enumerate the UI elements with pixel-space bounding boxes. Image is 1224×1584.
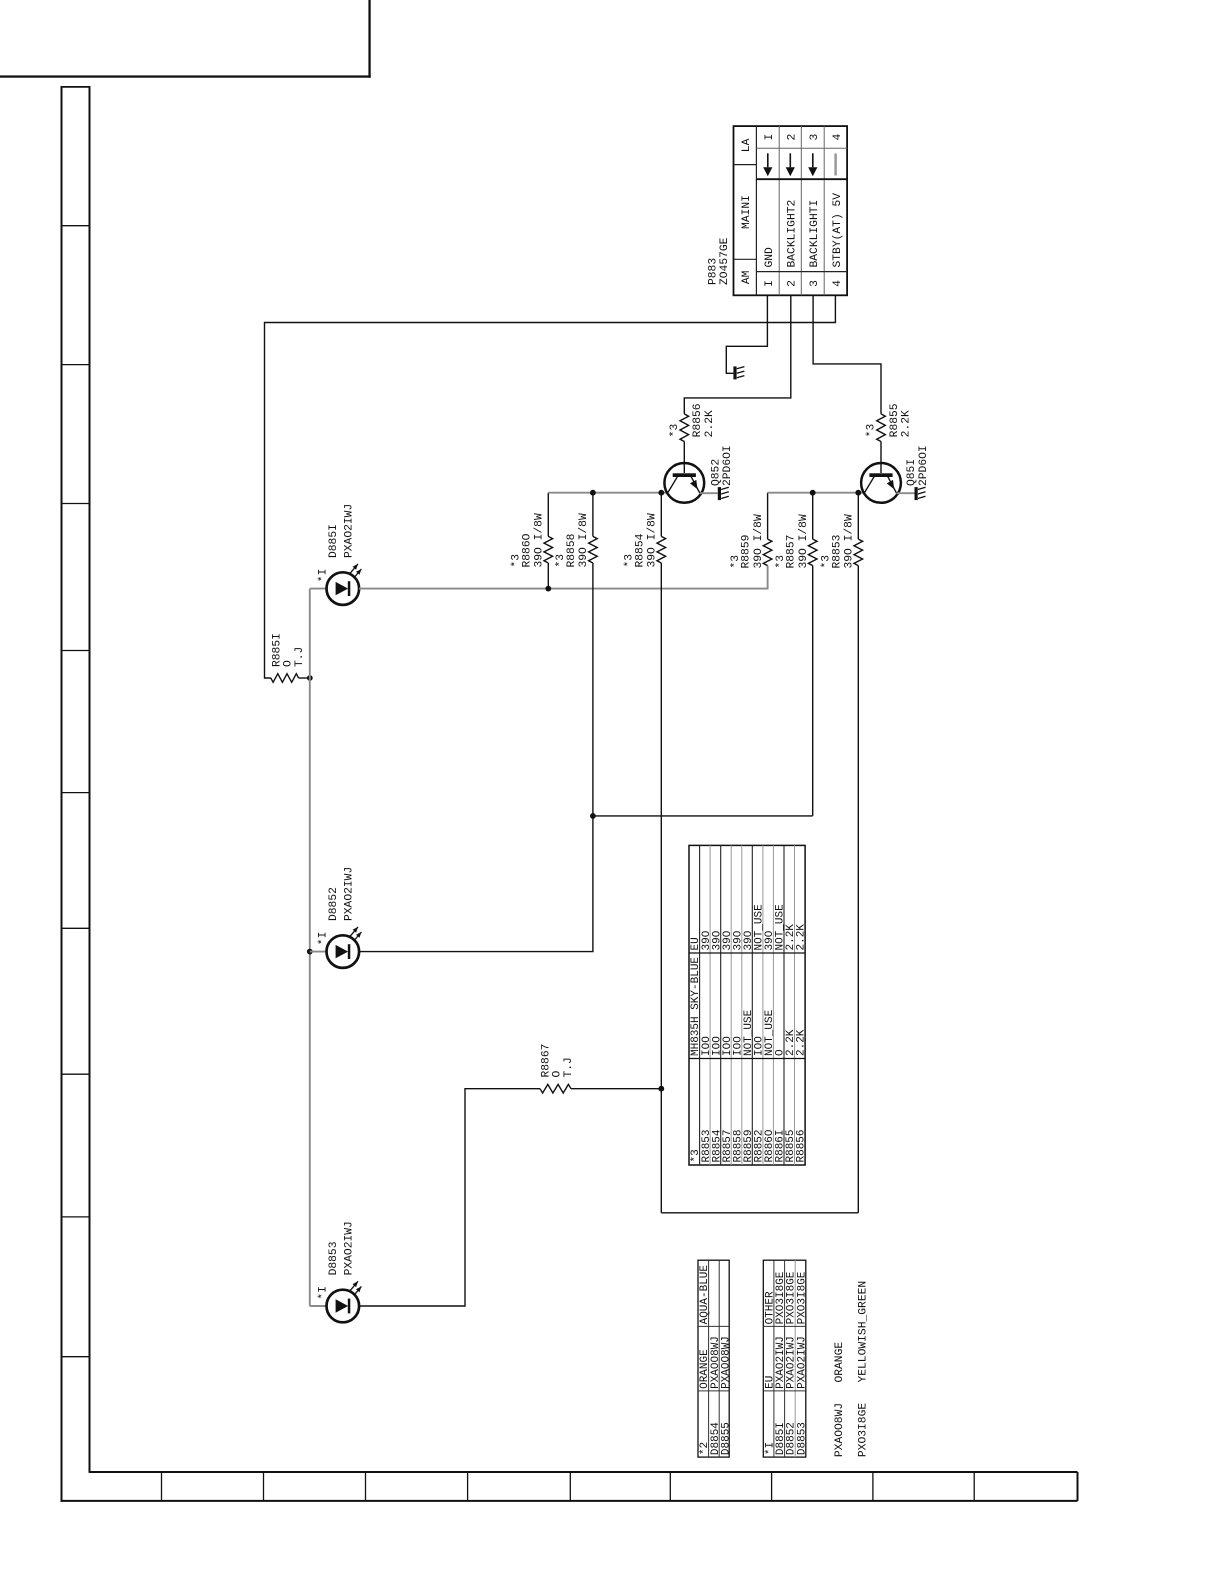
junction R8851 / LED bus — [307, 675, 313, 681]
svg-text:R8857: R8857 — [786, 535, 798, 569]
svg-text:*I: *I — [317, 569, 329, 583]
svg-text:PXAO2IWJ: PXAO2IWJ — [344, 504, 356, 558]
svg-text:Q852: Q852 — [710, 459, 722, 486]
wire collector node Q852 — [548, 492, 667, 494]
junction collector Q852 / R8858 — [590, 490, 596, 496]
svg-text:*I: *I — [317, 1286, 329, 1300]
svg-text:D8853: D8853 — [328, 1241, 340, 1275]
svg-text:R8859: R8859 — [741, 535, 753, 569]
svg-text:39O I/8W: 39O I/8W — [534, 513, 546, 567]
note PXA008WJ ORANGE — [834, 1342, 846, 1457]
resistor R8851 — [271, 674, 310, 683]
resistor R8855 2.2K — [877, 414, 886, 442]
svg-text:39O I/8W: 39O I/8W — [578, 513, 590, 567]
resistor R8854 390 1/8W — [657, 493, 666, 1213]
svg-text:MAINI: MAINI — [741, 195, 753, 229]
svg-text:P883: P883 — [708, 258, 720, 285]
svg-text:2PD6OI: 2PD6OI — [918, 445, 930, 486]
wire emitter Q852 — [700, 492, 718, 494]
wire to D8853 — [310, 1305, 327, 1307]
svg-text:T.J: T.J — [294, 647, 306, 667]
svg-text:D885I: D885I — [328, 524, 340, 558]
P883 reference label — [708, 237, 732, 285]
D8852 labels — [317, 867, 355, 945]
R8855 labels — [866, 403, 913, 437]
svg-text:BACKLIGHT2: BACKLIGHT2 — [787, 200, 799, 268]
transistor Q852 2PD601 — [664, 463, 704, 503]
svg-text:39O I/8W: 39O I/8W — [844, 514, 856, 568]
svg-text:2: 2 — [787, 280, 799, 287]
svg-text:I: I — [764, 280, 776, 287]
svg-text:D8855: D8855 — [720, 1422, 732, 1455]
LED D8853 PXA021WJ — [327, 1281, 362, 1322]
svg-text:D8852: D8852 — [328, 887, 340, 921]
R8854 labels — [624, 513, 659, 567]
svg-text:PXO3I8GE: PXO3I8GE — [796, 1271, 808, 1324]
svg-text:R8856: R8856 — [796, 1129, 808, 1162]
svg-text:3: 3 — [809, 280, 821, 287]
R8867 value label — [541, 1044, 576, 1078]
svg-text:2.2K: 2.2K — [796, 924, 808, 951]
R8856 labels — [669, 403, 716, 437]
LED D8852 PXA021WJ — [327, 927, 362, 968]
svg-text:AQUA-BLUE: AQUA-BLUE — [699, 1265, 711, 1325]
R8859 labels — [730, 514, 765, 568]
resistor R8853 390 1/8W — [854, 493, 863, 1213]
wire pin3 BACKLIGHT1 — [813, 295, 881, 414]
wire collector node Q851 — [768, 492, 864, 494]
resistor R8857 390 1/8W — [808, 493, 817, 816]
junction collector Q852 / R8854 — [658, 490, 664, 496]
svg-text:PXAO2IWJ: PXAO2IWJ — [344, 1221, 356, 1275]
svg-text:R8855: R8855 — [889, 403, 901, 437]
wire LED anode bus — [309, 589, 311, 1306]
wire D8853 cathode to R8867 — [359, 1089, 540, 1306]
wire link R8858/R8857 — [593, 815, 813, 817]
resistor R8867 — [540, 1084, 661, 1093]
svg-text:ZO457GE: ZO457GE — [719, 237, 731, 285]
wire emitter Q851 — [897, 492, 915, 494]
svg-text:PXAO2IWJ: PXAO2IWJ — [344, 867, 356, 921]
svg-text:4: 4 — [832, 280, 844, 287]
resistor R8858 390 1/8W — [589, 493, 598, 816]
svg-text:4: 4 — [832, 133, 844, 140]
wire pin1 GND — [726, 295, 767, 373]
svg-text:AM: AM — [741, 270, 753, 284]
svg-text:*3: *3 — [866, 424, 878, 438]
svg-text:39O I/8W: 39O I/8W — [753, 514, 765, 568]
ground (pin1) — [733, 366, 744, 379]
Q851 labels — [906, 445, 930, 486]
wire base Q851 — [880, 442, 882, 474]
svg-text:*3: *3 — [669, 424, 681, 438]
svg-text:2.2K: 2.2K — [901, 410, 913, 437]
svg-text:R8856: R8856 — [692, 403, 704, 437]
svg-text:2PD6OI: 2PD6OI — [722, 445, 734, 486]
wire left return (R8854/R8853) — [661, 1212, 858, 1214]
svg-text:GND: GND — [764, 247, 776, 268]
svg-text:R8853: R8853 — [831, 534, 843, 568]
connector P883 Z0457GE — [734, 126, 848, 295]
ground (Q852 emitter) — [718, 487, 729, 500]
svg-text:R8858: R8858 — [566, 533, 578, 567]
wire pin2 BACKLIGHT2 — [684, 295, 791, 414]
svg-text:39O I/8W: 39O I/8W — [647, 513, 659, 567]
R8858 labels — [555, 513, 590, 567]
junction D8852 tap — [307, 949, 313, 955]
svg-text:BACKLIGHTI: BACKLIGHTI — [809, 200, 821, 268]
resistor R8860 390 1/8W — [544, 493, 553, 589]
svg-text:R886O: R886O — [521, 533, 533, 567]
Q852 labels — [710, 445, 734, 486]
svg-text:Q85I: Q85I — [906, 459, 918, 486]
wire STBY 5V from pin4 — [265, 295, 836, 678]
svg-text:D8853: D8853 — [796, 1422, 808, 1455]
resistor R8859 390 1/8W — [763, 493, 772, 566]
R8857 labels — [775, 514, 810, 568]
wire to D8852 — [310, 951, 327, 953]
transistor Q851 2PD601 — [861, 463, 901, 503]
note PX0318GE YELLOWISH_GREEN — [857, 1281, 869, 1457]
svg-text:T.J: T.J — [563, 1057, 575, 1077]
ground (Q851 emitter) — [915, 487, 926, 500]
R8853 labels — [821, 514, 856, 568]
svg-text:STBY(AT) 5V: STBY(AT) 5V — [832, 193, 844, 268]
junction collector Q851 / R8857 — [810, 490, 816, 496]
wire D8852 cathode — [359, 816, 593, 952]
resistor R8856 2.2K — [680, 414, 689, 442]
table *1 LED variants — [763, 1260, 808, 1457]
junction R8867 / R8854 net — [658, 1086, 664, 1092]
wire to D8851 — [310, 588, 327, 590]
svg-text:LA: LA — [741, 138, 753, 152]
D8851 labels — [317, 504, 355, 582]
svg-text:PXAO2IWJ: PXAO2IWJ — [796, 1336, 808, 1389]
LED D8851 PXA021WJ — [327, 564, 362, 605]
svg-text:PXO3I8GE YELLOWISH_GREEN: PXO3I8GE YELLOWISH_GREEN — [857, 1281, 869, 1457]
wire D8851 cathode to R8859/R8860 — [359, 566, 767, 589]
junction R8858 link — [590, 813, 596, 819]
R8851 value label — [271, 633, 306, 667]
wire base Q852 — [683, 442, 685, 474]
svg-text:R8854: R8854 — [634, 533, 646, 567]
svg-text:PXAOO8WJ: PXAOO8WJ — [720, 1336, 732, 1389]
svg-text:2.2K: 2.2K — [796, 1029, 808, 1056]
svg-text:39O I/8W: 39O I/8W — [798, 514, 810, 568]
svg-text:I: I — [764, 134, 776, 141]
svg-text:2.2K: 2.2K — [704, 410, 716, 437]
svg-text:O: O — [552, 1071, 564, 1078]
table *3 resistor values — [689, 845, 808, 1165]
svg-text:PXAOO8WJ ORANGE: PXAOO8WJ ORANGE — [834, 1342, 846, 1457]
svg-text:3: 3 — [809, 133, 821, 140]
svg-text:O: O — [282, 660, 294, 667]
table *2 LED variants — [698, 1260, 732, 1457]
svg-text:2: 2 — [787, 134, 799, 141]
svg-text:*I: *I — [317, 932, 329, 946]
D8853 labels — [317, 1221, 355, 1299]
R8860 labels — [511, 513, 546, 567]
junction collector Q851 / R8853 — [855, 490, 861, 496]
junction R8860 tap — [545, 586, 551, 592]
